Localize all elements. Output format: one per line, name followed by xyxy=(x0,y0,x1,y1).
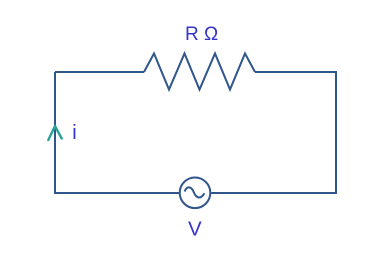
wire source to bottom-left corner and up left side xyxy=(55,72,180,193)
current arrow i (teal chevron) xyxy=(48,126,61,140)
svg-text:i: i xyxy=(72,122,76,144)
AC source V xyxy=(180,178,211,209)
svg-text:V: V xyxy=(188,218,202,241)
wire resistor to top-right corner and down right side xyxy=(211,72,337,193)
wire top-left to resistor xyxy=(55,71,144,73)
svg-text:R Ω: R Ω xyxy=(185,24,218,45)
sine wave inside source xyxy=(185,187,205,197)
resistor R xyxy=(144,54,255,90)
